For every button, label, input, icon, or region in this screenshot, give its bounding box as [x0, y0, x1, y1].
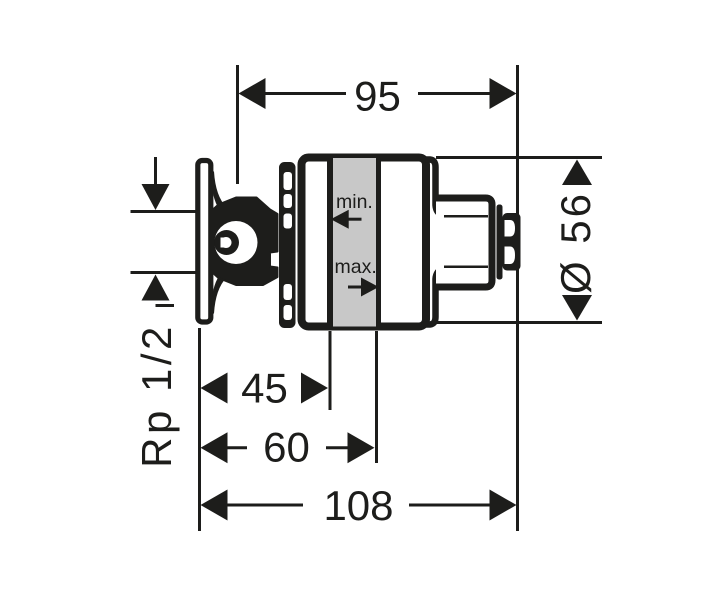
svg-text:Rp 1/2: Rp 1/2	[133, 323, 180, 468]
svg-text:95: 95	[354, 73, 401, 120]
svg-text:108: 108	[323, 482, 393, 529]
svg-text:45: 45	[241, 365, 288, 412]
svg-text:60: 60	[263, 424, 310, 471]
svg-text:min.: min.	[336, 191, 373, 213]
svg-text:Ø 56: Ø 56	[552, 191, 599, 294]
svg-text:max.: max.	[335, 256, 377, 278]
